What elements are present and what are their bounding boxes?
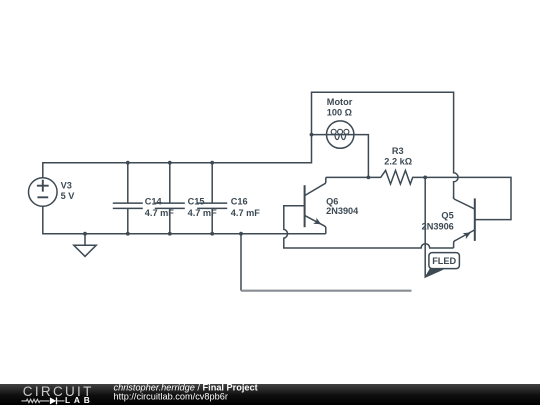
svg-text:Q6: Q6	[326, 197, 338, 207]
node C14 bottom	[126, 232, 130, 236]
svg-text:C15: C15	[188, 196, 205, 206]
transistor Q5	[454, 196, 475, 248]
transistor Q6	[305, 177, 326, 233]
svg-text:Q5: Q5	[441, 210, 453, 220]
node C15 top	[168, 161, 172, 165]
junction dots	[83, 133, 427, 236]
wire collector rail with resistor R3	[326, 170, 511, 219]
wire top rail from V3 to motor corner	[43, 92, 458, 199]
wire motor branch	[312, 135, 369, 178]
svg-text:C16: C16	[231, 196, 248, 206]
svg-text:4.7 mF: 4.7 mF	[145, 208, 174, 218]
svg-text:2N3906: 2N3906	[422, 222, 454, 232]
svg-text:5 V: 5 V	[61, 191, 76, 201]
node C14 top	[126, 161, 130, 165]
svg-text:V3: V3	[61, 180, 72, 190]
node bottom drop	[239, 232, 243, 236]
svg-text:R3: R3	[392, 146, 404, 156]
node R3 left	[367, 176, 371, 180]
svg-text:Motor: Motor	[327, 97, 353, 107]
node C16 bottom	[210, 232, 214, 236]
svg-text:LAB: LAB	[65, 395, 94, 405]
svg-text:2.2 kΩ: 2.2 kΩ	[384, 156, 412, 166]
wire Q6 base to Q5 emitter	[284, 206, 454, 248]
node motor left	[310, 133, 314, 137]
node R3 right / FLED	[423, 176, 427, 180]
capacitor C15	[155, 163, 185, 234]
component labels	[61, 97, 454, 231]
wire FLED node	[424, 177, 426, 277]
svg-text:100 Ω: 100 Ω	[327, 107, 352, 117]
ground	[74, 234, 96, 257]
svg-text:4.7 mF: 4.7 mF	[231, 208, 260, 218]
wire bottom rail from V3 across capacitors to Q6 emitter	[43, 207, 326, 234]
motor M1 circle	[327, 121, 354, 148]
node ground junction	[83, 232, 87, 236]
wire dangling gray rail	[241, 290, 412, 292]
voltage source V3	[29, 178, 58, 207]
node C15 bottom	[168, 232, 172, 236]
logo diode	[50, 397, 65, 404]
motor coil curls	[331, 129, 349, 139]
flag FLED	[425, 253, 459, 278]
svg-text:4.7 mF: 4.7 mF	[188, 208, 217, 218]
footer bar	[0, 384, 540, 405]
svg-text:FLED: FLED	[432, 256, 456, 266]
svg-text:C14: C14	[145, 196, 163, 206]
capacitor C16	[197, 163, 227, 234]
capacitor C14	[113, 163, 143, 234]
wire stub bottom rail drop	[240, 234, 242, 291]
node C16 top	[210, 161, 214, 165]
svg-text:2N3904: 2N3904	[326, 206, 359, 216]
logo resistor zigzag	[21, 399, 49, 402]
svg-text:http://circuitlab.com/cv8pb6r: http://circuitlab.com/cv8pb6r	[114, 392, 228, 402]
